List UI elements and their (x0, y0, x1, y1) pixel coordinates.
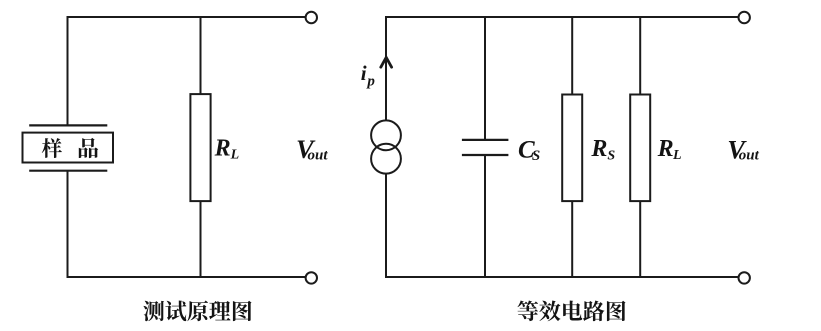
caption: 等效电路图 (equivalent circuit diagram) (517, 300, 625, 321)
wire: capacitor branch upper (484, 16, 486, 140)
capacitor CS: top plate (462, 139, 509, 141)
wire: left vertical upper (to sample) (67, 16, 69, 126)
wire: RL branch top (right circuit) (639, 16, 641, 95)
current source IP: lower circle (371, 144, 401, 174)
wire: current source branch upper (385, 16, 387, 121)
wire: RS branch top (571, 16, 573, 95)
wire: left circuit bottom rail (68, 276, 306, 278)
terminal: left circuit output + (306, 12, 317, 23)
sample: body box (23, 133, 114, 163)
arrow: current direction ip (up) (381, 57, 392, 67)
resistor RL (left circuit) (190, 94, 210, 201)
wire: RL branch bottom (200, 201, 202, 277)
wire: capacitor branch lower (484, 155, 486, 278)
wire: current source branch lower (385, 174, 387, 279)
wire: RS branch bottom (571, 201, 573, 277)
wire: left vertical lower (67, 171, 69, 278)
sample: top electrode plate (29, 124, 107, 126)
current source IP: upper circle (371, 120, 401, 150)
terminal: right circuit output - (739, 272, 750, 283)
wire: left circuit top rail (68, 16, 306, 18)
sample: bottom electrode plate (29, 170, 107, 172)
resistor RL (right circuit) (630, 95, 650, 202)
label: 样品 (sample) (42, 138, 98, 158)
resistor RS (562, 95, 582, 202)
wire: right circuit top rail (386, 16, 739, 18)
capacitor CS: bottom plate (462, 154, 509, 156)
wire: RL branch top (200, 16, 202, 94)
terminal: right circuit output + (739, 12, 750, 23)
wire: RL branch bottom (right circuit) (639, 201, 641, 277)
wire: right circuit bottom rail (385, 276, 738, 278)
terminal: left circuit output - (306, 272, 317, 283)
caption: 测试原理图 (test principle diagram) (143, 301, 251, 322)
